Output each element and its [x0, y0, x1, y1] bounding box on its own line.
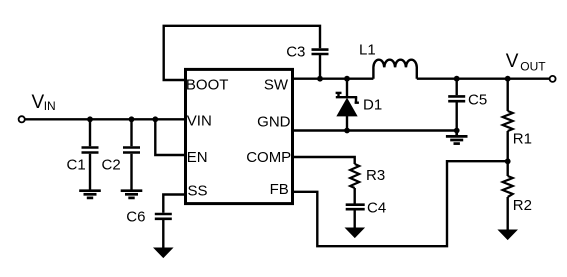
- wire L1 to VOUT: [417, 77, 549, 79]
- capacitor C6: [155, 214, 172, 219]
- svg-text:OUT: OUT: [520, 59, 546, 73]
- wire R2 to ground: [507, 197, 509, 230]
- junction dots: [87, 76, 511, 164]
- ground (arrow) for C6: [154, 248, 172, 257]
- svg-text:C3: C3: [286, 43, 305, 60]
- node EN/VIN: [152, 116, 158, 122]
- svg-text:C4: C4: [367, 200, 386, 217]
- node C2/VIN: [129, 116, 135, 122]
- wire C1 leads: [89, 119, 91, 190]
- wire C6 to ground: [162, 220, 164, 248]
- wire GND net: [293, 129, 457, 131]
- node C1/VIN: [87, 116, 93, 122]
- resistor R1: [503, 111, 513, 131]
- wire C4 to ground: [354, 210, 356, 228]
- capacitor C5: [448, 96, 465, 101]
- svg-text:C5: C5: [468, 91, 487, 108]
- capacitor C1: [82, 148, 99, 153]
- op-amp U1 IC body: [186, 69, 293, 203]
- capacitor C2: [123, 148, 140, 153]
- wire COMP to R3: [293, 157, 355, 164]
- wire SW net: [293, 77, 374, 79]
- ground (earth) for C5: [446, 131, 468, 144]
- svg-text:GND: GND: [257, 113, 291, 130]
- wire SS to C6: [163, 195, 185, 213]
- diode D1 (Schottky): [336, 93, 359, 103]
- wire C2 leads: [130, 119, 132, 190]
- wire R1 branch: [507, 79, 509, 111]
- svg-text:C2: C2: [102, 156, 121, 173]
- wire FB feedback path: [293, 161, 508, 246]
- node C5/GND: [454, 128, 460, 134]
- node D1/GND: [344, 128, 350, 134]
- wire EN branch: [155, 119, 185, 155]
- capacitor C3: [312, 50, 329, 54]
- ground (arrow) for R2: [499, 230, 517, 239]
- node R1/SW: [505, 76, 511, 82]
- ground (earth) for C1: [79, 191, 101, 198]
- svg-text:EN: EN: [187, 149, 208, 166]
- svg-text:VIN: VIN: [187, 113, 212, 130]
- node D1/SW: [344, 76, 350, 82]
- svg-text:R2: R2: [513, 197, 532, 214]
- ground (arrow) for C4: [346, 228, 364, 237]
- ground (earth) for C2: [121, 191, 143, 198]
- wire D1 leads: [346, 79, 348, 131]
- svg-text:C6: C6: [126, 208, 145, 225]
- wire R3 to C4: [354, 188, 356, 204]
- svg-text:R3: R3: [366, 167, 385, 184]
- svg-text:D1: D1: [363, 96, 382, 113]
- wire BOOT loop: [164, 26, 320, 80]
- terminal VOUT: [550, 76, 556, 82]
- svg-text:IN: IN: [44, 99, 56, 113]
- svg-text:SS: SS: [188, 183, 208, 200]
- svg-text:C1: C1: [67, 156, 86, 173]
- wire C3 bottom lead: [319, 55, 321, 79]
- svg-text:R1: R1: [513, 131, 532, 148]
- resistor R3: [350, 164, 359, 188]
- svg-text:FB: FB: [270, 181, 289, 198]
- svg-text:BOOT: BOOT: [186, 77, 229, 94]
- wire C5 leads: [456, 79, 458, 131]
- wire R1 to R2 node: [507, 131, 509, 176]
- svg-text:COMP: COMP: [246, 149, 291, 166]
- inductor L1: [373, 60, 416, 79]
- svg-text:V: V: [32, 92, 45, 113]
- terminal VIN: [19, 116, 25, 122]
- capacitor C4: [346, 205, 365, 210]
- node C3/SW: [317, 76, 323, 82]
- svg-text:L1: L1: [359, 42, 376, 59]
- node C5/SW: [454, 76, 460, 82]
- resistor R2: [503, 176, 513, 197]
- svg-text:SW: SW: [264, 77, 289, 94]
- wire VIN input: [25, 118, 186, 120]
- node R1/R2/FB: [505, 158, 511, 164]
- svg-text:V: V: [506, 51, 519, 72]
